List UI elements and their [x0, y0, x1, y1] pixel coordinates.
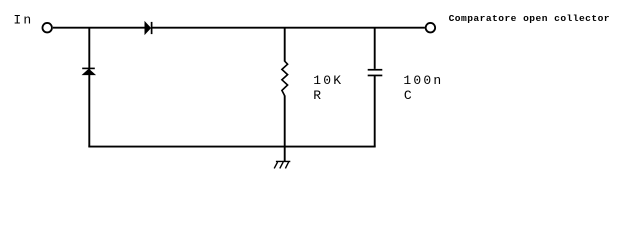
- wire top segment right (diode D1 to output terminal): [152, 27, 425, 29]
- svg-text:C: C: [404, 88, 412, 103]
- wire resistor branch bottom: [284, 96, 286, 147]
- wire bottom rail: [88, 146, 375, 148]
- wire top segment left (terminal to diode D1): [53, 27, 145, 29]
- svg-text:Comparatore open collector: Comparatore open collector: [449, 13, 610, 24]
- capacitor C: [368, 70, 383, 76]
- wire capacitor branch bottom: [374, 75, 376, 146]
- terminal output: [426, 23, 436, 33]
- wire ground stub: [284, 147, 286, 162]
- wire capacitor branch top: [374, 28, 376, 69]
- terminal In: [42, 23, 52, 33]
- wire resistor branch top: [284, 28, 286, 62]
- diode D2 shunt: [82, 68, 95, 74]
- resistor R: [282, 61, 288, 96]
- svg-text:R: R: [313, 88, 321, 103]
- svg-text:100n: 100n: [403, 73, 443, 88]
- ground: [274, 161, 290, 168]
- svg-text:10K: 10K: [313, 73, 343, 88]
- svg-text:In: In: [13, 13, 33, 28]
- diode D1 series: [145, 22, 152, 34]
- wire shunt branch (node A down through diode D2 to bottom rail): [88, 28, 90, 147]
